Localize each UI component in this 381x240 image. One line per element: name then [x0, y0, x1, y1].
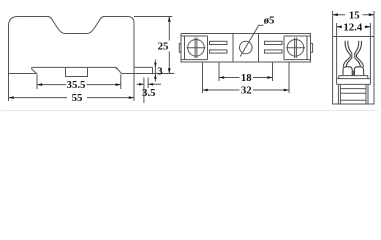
front view right foot	[116, 67, 134, 73]
dim 3.5 ticks	[144, 78, 148, 104]
side view inner walls	[337, 37, 371, 85]
center hole ø5	[240, 41, 253, 54]
clip arm left	[343, 41, 350, 67]
dim 25 extension top	[134, 16, 172, 18]
dim 18 extension lines	[219, 63, 273, 82]
svg-text:ø5: ø5	[264, 15, 275, 27]
arrowheads dim 55	[9, 96, 14, 99]
clip center stub	[352, 71, 354, 76]
top view end cap lines	[181, 36, 311, 60]
screw plate left	[185, 36, 208, 60]
svg-text:18: 18	[241, 72, 252, 84]
svg-text:25: 25	[158, 40, 169, 52]
front view center boss	[66, 67, 88, 76]
page divider rule	[1, 110, 378, 112]
dim 55 extension lines	[9, 74, 135, 102]
arrowheads dim 3.5	[139, 83, 144, 86]
top view dividers	[233, 34, 259, 63]
dim 12.4 extension lines	[337, 23, 371, 37]
fuse clip bars left	[210, 41, 228, 44]
dim 35.5 line	[37, 84, 121, 86]
clip arm right	[356, 41, 363, 67]
dim 15 line	[333, 14, 374, 16]
arrowheads dim 15	[333, 13, 338, 16]
base plate	[337, 76, 371, 79]
lower contact bracket	[340, 89, 366, 101]
svg-text:15: 15	[349, 9, 360, 21]
dim 15 extension lines	[333, 11, 374, 37]
right side tab	[311, 44, 313, 53]
arrowheads dim 12.4	[337, 25, 342, 28]
dim 18 line	[219, 77, 273, 79]
top view outer rectangle	[181, 34, 311, 63]
ø5 leader line	[240, 25, 263, 56]
dim 55 line	[9, 97, 135, 99]
dim 12.4 line	[337, 26, 371, 28]
arrowheads dim 25	[168, 17, 171, 22]
dim 32 extension lines	[203, 63, 290, 94]
dim 3.5 line	[137, 83, 162, 85]
screw head left	[188, 40, 205, 57]
fuse clip bars right	[265, 41, 283, 44]
arrowheads dim 18	[219, 76, 224, 79]
front view body outline	[9, 17, 135, 74]
arrowheads dim 32	[203, 89, 208, 92]
svg-text:12.4: 12.4	[343, 21, 362, 33]
svg-text:32: 32	[241, 84, 252, 96]
arrowheads dim 35.5	[37, 83, 42, 86]
dim 32 line	[203, 89, 290, 91]
lower stile bars	[338, 84, 368, 103]
svg-text:35.5: 35.5	[67, 79, 86, 91]
svg-text:3: 3	[157, 65, 163, 77]
front view groove top line	[32, 66, 117, 68]
dim 3 extension lines	[134, 67, 153, 74]
dim 3 line	[154, 60, 156, 82]
side view outer box	[333, 37, 374, 105]
clip foot humps	[343, 67, 352, 76]
dim 35.5 extension lines	[37, 75, 121, 90]
left side tab	[179, 44, 181, 53]
arrowheads dim 3	[154, 63, 157, 68]
svg-text:3.5: 3.5	[142, 87, 156, 99]
screw plate right	[284, 36, 307, 60]
svg-text:55: 55	[72, 92, 83, 104]
screw head right	[287, 40, 304, 57]
dim 25 extension bottom	[134, 73, 175, 75]
dim 25 line	[168, 17, 170, 74]
lower cavity top line	[337, 83, 371, 85]
front view bottom face left	[9, 67, 37, 73]
